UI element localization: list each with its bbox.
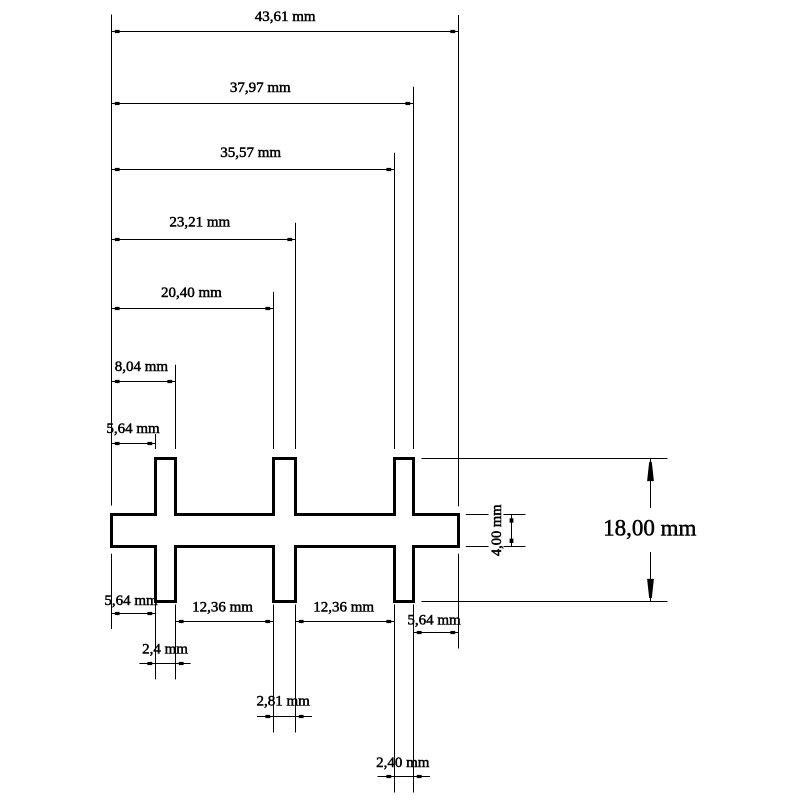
svg-text:23,21 mm: 23,21 mm	[169, 215, 230, 231]
svg-text:5,64 mm: 5,64 mm	[407, 613, 461, 629]
svg-text:12,36 mm: 12,36 mm	[313, 599, 374, 615]
svg-text:2,40 mm: 2,40 mm	[376, 755, 430, 771]
svg-text:5,64 mm: 5,64 mm	[104, 593, 158, 609]
svg-text:12,36 mm: 12,36 mm	[192, 599, 253, 615]
svg-text:37,97 mm: 37,97 mm	[230, 80, 291, 96]
svg-text:2,81 mm: 2,81 mm	[257, 694, 311, 710]
svg-text:8,04 mm: 8,04 mm	[115, 359, 169, 375]
svg-text:5,64 mm: 5,64 mm	[106, 421, 160, 437]
svg-text:4,00 mm: 4,00 mm	[489, 504, 505, 556]
svg-text:20,40 mm: 20,40 mm	[161, 285, 222, 301]
svg-text:35,57 mm: 35,57 mm	[220, 145, 281, 161]
svg-text:18,00 mm: 18,00 mm	[603, 516, 696, 541]
svg-text:2,4 mm: 2,4 mm	[142, 642, 188, 658]
svg-text:43,61 mm: 43,61 mm	[255, 9, 316, 25]
